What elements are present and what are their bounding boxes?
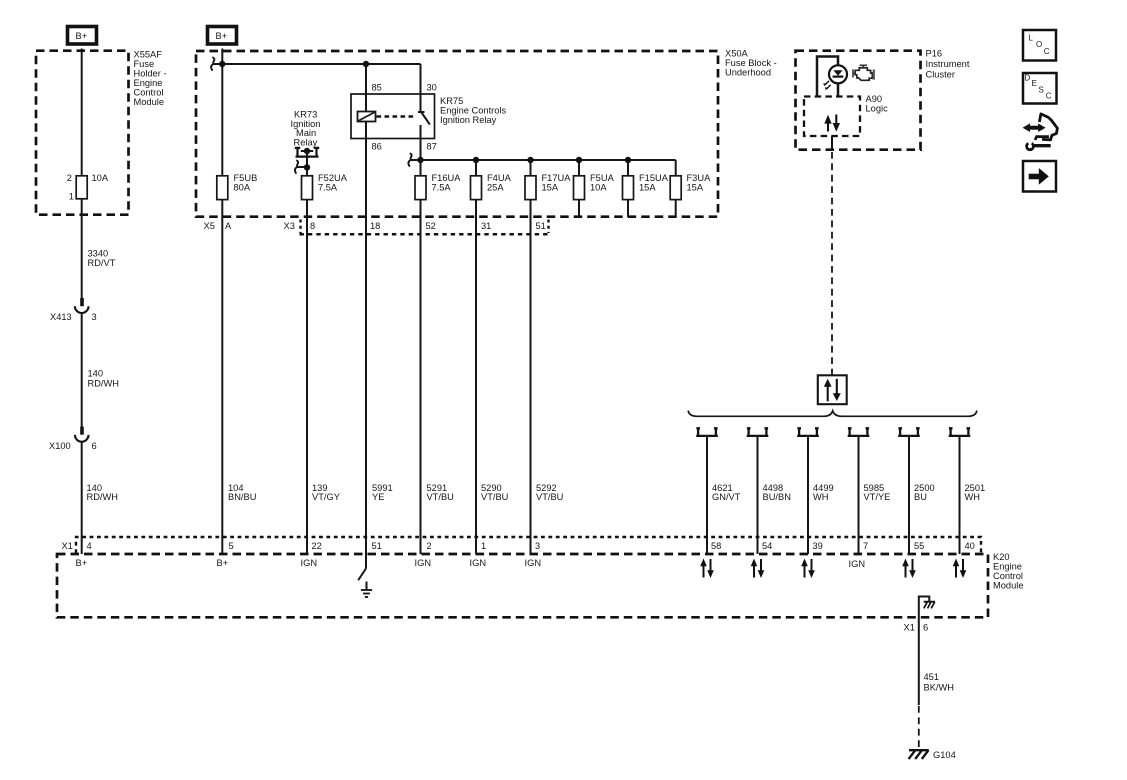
- svg-text:2: 2: [427, 541, 432, 551]
- svg-text:58: 58: [711, 541, 721, 551]
- svg-text:22: 22: [312, 541, 322, 551]
- wire F5UB to K20 pin 5: [221, 200, 223, 554]
- svg-text:B+: B+: [76, 558, 88, 568]
- svg-text:39: 39: [813, 541, 823, 551]
- relay KR75 Engine Controls Ignition Relay: [351, 83, 507, 152]
- wire 451 BK/WH: [919, 617, 954, 748]
- connector X413 pin 3: [50, 298, 97, 322]
- svg-text:25A: 25A: [487, 182, 504, 192]
- svg-text:Module: Module: [134, 97, 165, 107]
- wire label 5292 VT/BU: [536, 483, 563, 502]
- svg-text:85: 85: [372, 83, 382, 93]
- node F15UA feed: [625, 157, 631, 163]
- svg-text:BK/WH: BK/WH: [924, 683, 954, 693]
- internal chassis ground: [924, 602, 935, 609]
- svg-text:7.5A: 7.5A: [318, 182, 338, 192]
- svg-text:Module: Module: [993, 581, 1024, 591]
- svg-text:KR73: KR73: [294, 110, 317, 120]
- svg-text:80A: 80A: [234, 182, 251, 192]
- bidirectional arrows pin 58: [700, 559, 714, 579]
- svg-text:A: A: [225, 221, 232, 231]
- relay KR75 coil-contact dashed link: [377, 115, 415, 118]
- svg-text:Fuse Block -: Fuse Block -: [725, 58, 777, 68]
- fuse holder X55AF dashed box: [36, 50, 167, 215]
- node at relay coil feed: [363, 61, 369, 67]
- wire label 2500 BU: [914, 483, 935, 502]
- svg-text:IGN: IGN: [849, 559, 866, 569]
- svg-text:D: D: [1025, 74, 1031, 83]
- svg-text:RD/VT: RD/VT: [88, 258, 116, 268]
- svg-text:VT/BU: VT/BU: [427, 492, 454, 502]
- connector X100 pin 6: [49, 427, 97, 452]
- svg-text:52: 52: [426, 221, 436, 231]
- fuse block X50A dashed box: [196, 49, 777, 217]
- connector X3 dotted box: [204, 220, 550, 235]
- svg-text:VT/GY: VT/GY: [312, 492, 340, 502]
- svg-text:S: S: [1039, 86, 1044, 95]
- internal ground wire at X1 6: [919, 597, 930, 618]
- wire label 4499 WH: [813, 483, 834, 502]
- svg-text:51: 51: [536, 221, 546, 231]
- wire F16UA to K20 pin 2: [420, 200, 422, 554]
- svg-text:15A: 15A: [687, 182, 704, 192]
- node at B+ bus: [219, 61, 225, 67]
- bus wire to relay pins 85 and 30: [222, 64, 420, 112]
- wire X100 to K20 pin 4: [81, 442, 83, 554]
- svg-text:Fuse: Fuse: [134, 59, 155, 69]
- wire label 4498 BU/BN: [763, 483, 791, 502]
- wire label 5991 YE: [372, 483, 393, 502]
- relay KR75 coil: [358, 112, 376, 122]
- svg-text:KR75: KR75: [440, 96, 463, 106]
- brace bus split: [688, 411, 977, 417]
- svg-text:54: 54: [762, 541, 772, 551]
- svg-text:G104: G104: [933, 750, 956, 760]
- svg-text:VT/BU: VT/BU: [536, 492, 563, 502]
- svg-text:3: 3: [535, 541, 540, 551]
- svg-text:1: 1: [69, 191, 74, 201]
- wire label 4621 GN/VT: [712, 483, 741, 502]
- serial data wire from A90: [831, 136, 833, 376]
- fuse F5UA 10A: [574, 173, 615, 200]
- svg-text:VT/YE: VT/YE: [864, 492, 891, 502]
- svg-text:E: E: [1032, 79, 1037, 88]
- svg-text:X3: X3: [284, 221, 295, 231]
- svg-text:Control: Control: [134, 88, 164, 98]
- legend connector-tools icon: [1023, 114, 1058, 150]
- svg-text:X413: X413: [50, 312, 72, 322]
- svg-text:IGN: IGN: [301, 558, 318, 568]
- instrument cluster P16 dashed box: [796, 49, 970, 150]
- pin X1 6 labels: [904, 623, 929, 633]
- wire label 104 BN/BU: [228, 483, 256, 502]
- fuse F5UB 80A: [217, 173, 257, 200]
- wire relay pin 87 down: [420, 125, 422, 554]
- svg-text:31: 31: [481, 221, 491, 231]
- svg-text:IGN: IGN: [470, 558, 487, 568]
- svg-text:P16: P16: [926, 49, 943, 59]
- svg-text:Control: Control: [993, 571, 1023, 581]
- wire label 5291 VT/BU: [427, 483, 454, 502]
- svg-text:3: 3: [92, 312, 97, 322]
- svg-text:87: 87: [427, 142, 437, 152]
- wire label 2501 WH: [965, 483, 986, 502]
- connector terminal at pin 55 wire: [898, 428, 920, 554]
- svg-text:2: 2: [67, 173, 72, 183]
- svg-text:BN/BU: BN/BU: [228, 492, 256, 502]
- node at relay 87 bus: [417, 157, 423, 163]
- svg-text:Instrument: Instrument: [926, 59, 970, 69]
- wire fuse to X413: [81, 199, 83, 299]
- splice branch at B+ bus: [211, 57, 222, 70]
- svg-text:4: 4: [87, 541, 92, 551]
- svg-text:40: 40: [965, 541, 975, 551]
- svg-text:18: 18: [370, 221, 380, 231]
- svg-text:IGN: IGN: [415, 558, 432, 568]
- wire label 139 VT/GY: [312, 483, 340, 502]
- svg-text:RD/WH: RD/WH: [87, 492, 119, 502]
- legend forward arrow box: [1023, 161, 1056, 192]
- svg-text:X1: X1: [62, 541, 73, 551]
- node F17UA feed: [527, 157, 533, 163]
- wire X413 to X100: [81, 313, 83, 427]
- svg-text:BU/BN: BU/BN: [763, 492, 791, 502]
- svg-text:X100: X100: [49, 441, 71, 451]
- wire label 5985 VT/YE: [864, 483, 891, 502]
- connector terminal at pin 54 wire: [747, 428, 769, 554]
- indicator LED lamp: [823, 65, 847, 90]
- legend DESC box: [1023, 73, 1057, 104]
- wire coil feed pin 85 to pin 86 output: [365, 64, 367, 554]
- wire KR73 to fuse F52UA: [306, 151, 308, 176]
- svg-text:8: 8: [310, 221, 315, 231]
- svg-text:C: C: [1046, 92, 1052, 101]
- connector terminal at pin 7 wire: [848, 428, 870, 554]
- wire F4UA to K20 pin 1: [475, 200, 477, 554]
- svg-text:Holder -: Holder -: [134, 69, 167, 79]
- wire F5UA stub: [578, 200, 580, 217]
- svg-text:7.5A: 7.5A: [432, 182, 452, 192]
- svg-text:6: 6: [92, 441, 97, 451]
- wire indicator loop: [817, 57, 838, 97]
- svg-text:55: 55: [914, 541, 924, 551]
- wire F17UA to K20 pin 3: [530, 200, 532, 554]
- connector terminal at pin 39 wire: [797, 428, 819, 554]
- svg-text:86: 86: [372, 142, 382, 152]
- bidirectional arrows pin 39: [801, 559, 815, 579]
- svg-text:B+: B+: [76, 31, 88, 41]
- wire F52UA to K20 pin 22: [306, 200, 308, 554]
- svg-text:Cluster: Cluster: [926, 70, 955, 80]
- fuse F16UA 7.5A: [415, 173, 461, 200]
- svg-text:X50A: X50A: [725, 49, 749, 59]
- switch to ground at pin 51: [358, 554, 366, 580]
- fuse 10A in X55AF: [67, 173, 109, 201]
- svg-text:YE: YE: [372, 492, 384, 502]
- wire label 5290 VT/BU: [481, 483, 508, 502]
- node F5UA feed: [576, 157, 582, 163]
- connector terminal at pin 40 wire: [949, 428, 971, 554]
- svg-text:Engine: Engine: [134, 78, 163, 88]
- relay KR75 switch blade pin 30 to 87: [418, 112, 430, 125]
- relay KR73 Ignition Main Relay connection: [291, 110, 321, 157]
- svg-text:Underhood: Underhood: [725, 68, 771, 78]
- svg-text:BU: BU: [914, 492, 927, 502]
- node F4UA feed: [473, 157, 479, 163]
- svg-text:WH: WH: [813, 492, 829, 502]
- svg-text:5: 5: [229, 541, 234, 551]
- engine icon: [853, 65, 874, 80]
- svg-text:IGN: IGN: [525, 558, 542, 568]
- connector X1 dotted row of K20: [62, 537, 982, 553]
- svg-text:1: 1: [481, 541, 486, 551]
- splice branch above F52UA: [295, 160, 307, 173]
- svg-text:X1: X1: [904, 623, 915, 633]
- svg-text:Engine: Engine: [993, 562, 1022, 572]
- svg-text:RD/WH: RD/WH: [88, 379, 120, 389]
- svg-text:Engine Controls: Engine Controls: [440, 106, 507, 116]
- svg-text:15A: 15A: [639, 182, 656, 192]
- fuse F15UA 15A: [623, 173, 669, 200]
- svg-text:7: 7: [863, 541, 868, 551]
- serial data link symbol: [818, 375, 847, 404]
- ground at pin 51: [361, 582, 372, 598]
- node above F52UA: [304, 164, 310, 170]
- power symbol B+ (left feed): [68, 27, 97, 45]
- splice branch at relay 87 bus: [408, 153, 420, 166]
- svg-text:X5: X5: [204, 221, 215, 231]
- svg-text:6: 6: [923, 623, 928, 633]
- svg-text:B+: B+: [216, 31, 228, 41]
- svg-text:C: C: [1044, 47, 1050, 56]
- bidirectional arrows pin 55: [902, 559, 916, 579]
- wire B+ down to fuse F5UB: [221, 49, 223, 177]
- svg-text:10A: 10A: [92, 173, 109, 183]
- logic module A90 dashed box: [804, 94, 888, 136]
- fuse F17UA 15A: [525, 173, 571, 200]
- node KR73 terminal: [304, 148, 310, 154]
- ground G104: [909, 750, 956, 760]
- svg-text:140: 140: [88, 369, 104, 379]
- svg-text:Logic: Logic: [866, 103, 889, 113]
- svg-text:51: 51: [372, 541, 382, 551]
- svg-text:VT/BU: VT/BU: [481, 492, 508, 502]
- bidirectional arrows in A90: [824, 115, 840, 132]
- wire label 140 RD/WH (lower): [87, 483, 119, 502]
- fuse F4UA 25A: [471, 173, 512, 200]
- power symbol B+ (second feed): [208, 27, 237, 45]
- wire label 3340 RD/VT: [88, 249, 116, 268]
- wire label 140 RD/WH: [88, 369, 120, 389]
- bus wire 87 feed to fuses: [421, 160, 676, 217]
- svg-text:Relay: Relay: [294, 137, 318, 147]
- svg-text:Ignition Relay: Ignition Relay: [440, 115, 497, 125]
- svg-text:B+: B+: [217, 558, 229, 568]
- bidirectional arrows pin 40: [953, 559, 967, 579]
- wire B+ to fuse 10A: [81, 49, 83, 177]
- bidirectional arrows pin 54: [751, 559, 765, 579]
- svg-text:30: 30: [427, 83, 437, 93]
- svg-text:L: L: [1029, 34, 1034, 43]
- svg-text:K20: K20: [993, 552, 1010, 562]
- svg-text:WH: WH: [965, 492, 981, 502]
- legend LOC box: [1023, 30, 1056, 61]
- svg-text:GN/VT: GN/VT: [712, 492, 741, 502]
- fuse F52UA 7.5A: [302, 173, 348, 200]
- svg-text:10A: 10A: [590, 182, 607, 192]
- svg-text:15A: 15A: [542, 182, 559, 192]
- svg-text:O: O: [1036, 40, 1042, 49]
- svg-text:X55AF: X55AF: [134, 50, 163, 60]
- wire F15UA stub: [627, 200, 629, 217]
- connector terminal at pin 58 wire: [696, 428, 718, 554]
- svg-text:451: 451: [924, 672, 940, 682]
- engine control module K20 dashed box: [57, 552, 1024, 617]
- fuse F3UA 15A: [670, 173, 711, 200]
